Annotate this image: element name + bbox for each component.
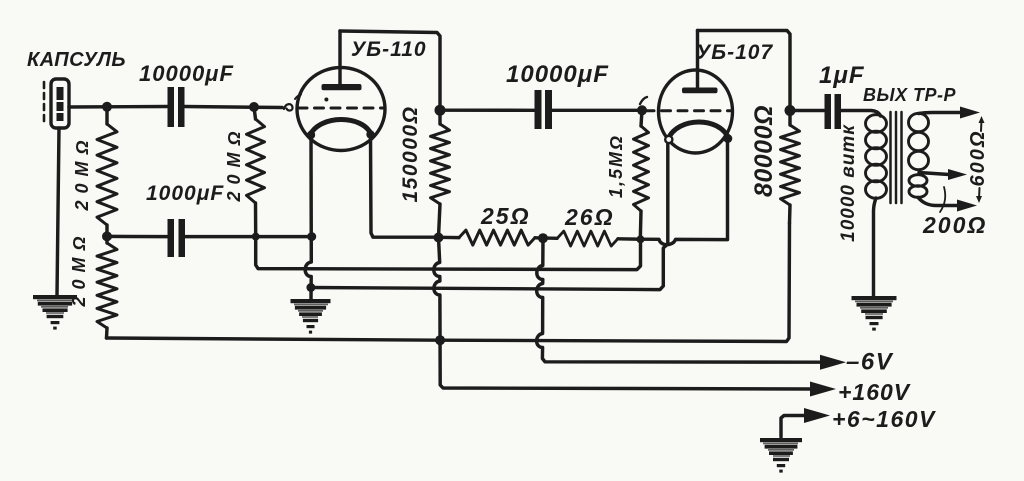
resistor R8 80000Ω label (750, 105, 778, 197)
resistor R6 26Ω (557, 231, 618, 246)
transformer label ВЫХ ТР-Р (863, 85, 957, 105)
arrow -6V (820, 355, 846, 370)
svg-text:26Ω: 26Ω (564, 204, 615, 230)
transformer T1 primary winding (866, 115, 887, 199)
node: R4 bottom junction (434, 233, 444, 243)
ground below capsule (33, 295, 77, 330)
microphone capsule label КАПСУЛЬ (27, 49, 126, 71)
svg-text:10000 витк: 10000 витк (838, 124, 859, 242)
resistor R2 20МΩ label (69, 229, 89, 307)
wire V1 cathode-left to ground (hop over bias line) (305, 136, 311, 299)
node: grid-return joins cathode lead (307, 232, 316, 241)
wire node to V2 cathode-right (hop over cathode-left lead) (641, 141, 728, 245)
wire V1 anode to R4 top (340, 31, 440, 110)
wire capsule to ground (57, 128, 59, 295)
svg-text:25Ω: 25Ω (480, 203, 531, 229)
resistor R7 1,5МΩ label (606, 134, 626, 198)
wire line B: cathode tap to V2 cathode-left (311, 141, 668, 290)
arrow secondary middle tap (948, 169, 967, 180)
node: signal wire/R3 top (249, 102, 259, 112)
transformer T1 core (891, 112, 902, 203)
resistor R6 26Ω label (564, 204, 615, 230)
capacitor C2 label 1000μF (146, 182, 224, 205)
secondary bottom tap wire (918, 198, 959, 206)
resistor R8 80000Ω (781, 110, 800, 223)
svg-text:+6~160V: +6~160V (832, 406, 936, 432)
wire +6~160V from ground (781, 416, 806, 438)
resistor R4 150000Ω (431, 110, 450, 237)
arrow secondary top tap (960, 107, 980, 119)
node: hum line B tap (306, 283, 315, 292)
tube V2 anode lead (696, 31, 699, 88)
svg-text:10000μF: 10000μF (506, 61, 609, 88)
ground at +6~160V (760, 438, 802, 473)
node: anode2/R8/C4 junction (785, 105, 796, 116)
svg-text:1,5МΩ: 1,5МΩ (606, 134, 626, 198)
node: anode1/C3/R4 junction (435, 105, 446, 116)
svg-text:–6V: –6V (846, 349, 894, 376)
tube V2 grid (dashed) (645, 109, 730, 112)
svg-text:600Ω: 600Ω (967, 130, 989, 187)
node: R1/R2/C2 junction (102, 231, 112, 241)
wire to C2 (107, 235, 167, 239)
node: V2 cathode right end (723, 134, 732, 143)
capacitor C4 label 1μF (819, 62, 865, 89)
capsule front dashed line (43, 82, 46, 126)
wire V1 cathode-right down (371, 135, 439, 237)
node: grid2/R7 junction (637, 105, 647, 115)
svg-text:10000μF: 10000μF (139, 61, 234, 86)
capacitor C4 plates (825, 94, 842, 129)
svg-text:20МΩ: 20МΩ (224, 124, 244, 202)
wire primary bottom to ground (874, 198, 877, 296)
wire C3 to V2 grid (552, 109, 642, 112)
svg-text:80000Ω: 80000Ω (750, 105, 778, 197)
node: R3 bottom T-junction (252, 233, 260, 241)
node: V1 cathode right end (366, 130, 374, 138)
node: capsule/R1/C1 junction (102, 102, 112, 112)
svg-text:20МΩ: 20МΩ (72, 133, 92, 211)
label 200Ω leader (940, 187, 945, 212)
transformer T1 primary label 10000 витк (838, 124, 859, 242)
arrow secondary bottom tap (957, 200, 977, 212)
tube V2 label УБ-107 (696, 41, 773, 64)
resistor R2 20МΩ (97, 236, 117, 338)
resistor R1 20МΩ (97, 107, 117, 236)
capacitor C1 label 10000μF (139, 61, 234, 86)
node: +160V rail / plate-feed junction (435, 335, 445, 345)
tube V2 cathode arc (668, 122, 729, 139)
microphone capsule B1 (51, 79, 69, 128)
tube V1 cathode arc (310, 119, 371, 135)
wire R4 node down to +160V rail (hops) (434, 238, 812, 390)
label 600Ω span arrows (976, 116, 985, 203)
tube V2 anode bar (682, 88, 718, 94)
resistor R3 20МΩ label (224, 124, 244, 202)
node: V1 cathode left end (307, 131, 315, 139)
capacitor C2 plates (168, 219, 186, 257)
grid entry tick V2 (640, 97, 647, 104)
wire C4 to transformer primary (841, 111, 881, 117)
svg-text:+160V: +160V (838, 379, 911, 405)
arrow +160V (810, 382, 836, 397)
tube V1 grid (dashed) (298, 107, 384, 110)
tube V2 envelope (659, 70, 733, 153)
wire plate-feed rail (107, 223, 790, 342)
arrow +6~160V (804, 408, 830, 423)
wire C1 to V1 grid (185, 107, 283, 108)
wire V2 anode to R8 top (698, 31, 791, 111)
wire capsule output to C1 (69, 105, 167, 109)
label 600Ω (967, 130, 989, 187)
label -6V (846, 349, 894, 376)
ground below V1 cathode (291, 299, 331, 334)
svg-text:1μF: 1μF (819, 62, 865, 89)
label +160V (838, 379, 911, 405)
tube V1 anode lead (338, 31, 341, 84)
grid entry curl V1 (284, 95, 301, 111)
svg-text:КАПСУЛЬ: КАПСУЛЬ (27, 49, 126, 71)
wire R5 to R6 (535, 236, 557, 240)
capacitor C3 label 10000μF (506, 61, 609, 88)
resistor R4 150000Ω label (399, 106, 422, 203)
label 200Ω (922, 212, 987, 238)
speck inside V1 (324, 98, 328, 102)
svg-text:200Ω: 200Ω (922, 212, 987, 238)
tube V1 label УБ-110 (351, 38, 427, 61)
resistor R5 25Ω label (480, 203, 531, 229)
transformer T1 secondary winding (909, 113, 929, 197)
resistor R5 25Ω (439, 230, 536, 245)
capacitor C3 plates (535, 90, 553, 129)
svg-text:1000μF: 1000μF (146, 182, 224, 205)
svg-text:150000Ω: 150000Ω (399, 106, 422, 203)
secondary middle tap wire (919, 173, 949, 175)
svg-text:УБ-107: УБ-107 (696, 41, 773, 64)
wire line A: R3 bottom to R6/R7 node (256, 237, 641, 270)
wire R5/R6 node down to -6V rail (hops) (537, 238, 822, 362)
wire C2 to cathode node (185, 235, 312, 238)
wire R4 node to C3 (440, 108, 535, 112)
ground below transformer (852, 296, 897, 331)
svg-text:ВЫХ ТР-Р: ВЫХ ТР-Р (863, 85, 957, 105)
tube V1 anode bar (322, 84, 362, 90)
node: R5/R6 junction (538, 233, 548, 243)
node: V2 cathode left end (665, 136, 672, 143)
resistor R1 20МΩ label (72, 133, 92, 211)
resistor R3 20МΩ (247, 107, 265, 237)
svg-text:УБ-110: УБ-110 (351, 38, 427, 61)
tube V1 envelope (297, 68, 385, 151)
resistor R7 1,5МΩ (634, 110, 649, 239)
capacitor C1 plates (168, 87, 185, 127)
label +6~160V (832, 406, 936, 432)
wire R6 to node (618, 237, 641, 241)
secondary top tap wire (919, 113, 963, 114)
node: R6/R7/lineA junction (637, 235, 645, 243)
wire R8 node to C4 (790, 109, 824, 112)
